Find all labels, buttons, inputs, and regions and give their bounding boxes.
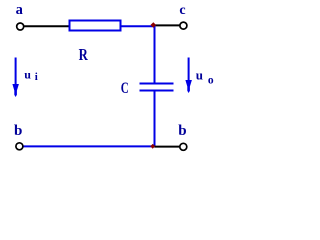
svg-text:a: a — [16, 2, 24, 18]
svg-text:R: R — [79, 45, 89, 64]
svg-text:c: c — [179, 3, 185, 18]
svg-text:C: C — [121, 80, 129, 97]
svg-text:u: u — [196, 68, 203, 83]
svg-text:b: b — [14, 123, 22, 139]
svg-text:b: b — [178, 123, 186, 139]
svg-text:u: u — [24, 67, 31, 81]
svg-text:o: o — [208, 75, 214, 87]
svg-text:i: i — [35, 71, 38, 83]
